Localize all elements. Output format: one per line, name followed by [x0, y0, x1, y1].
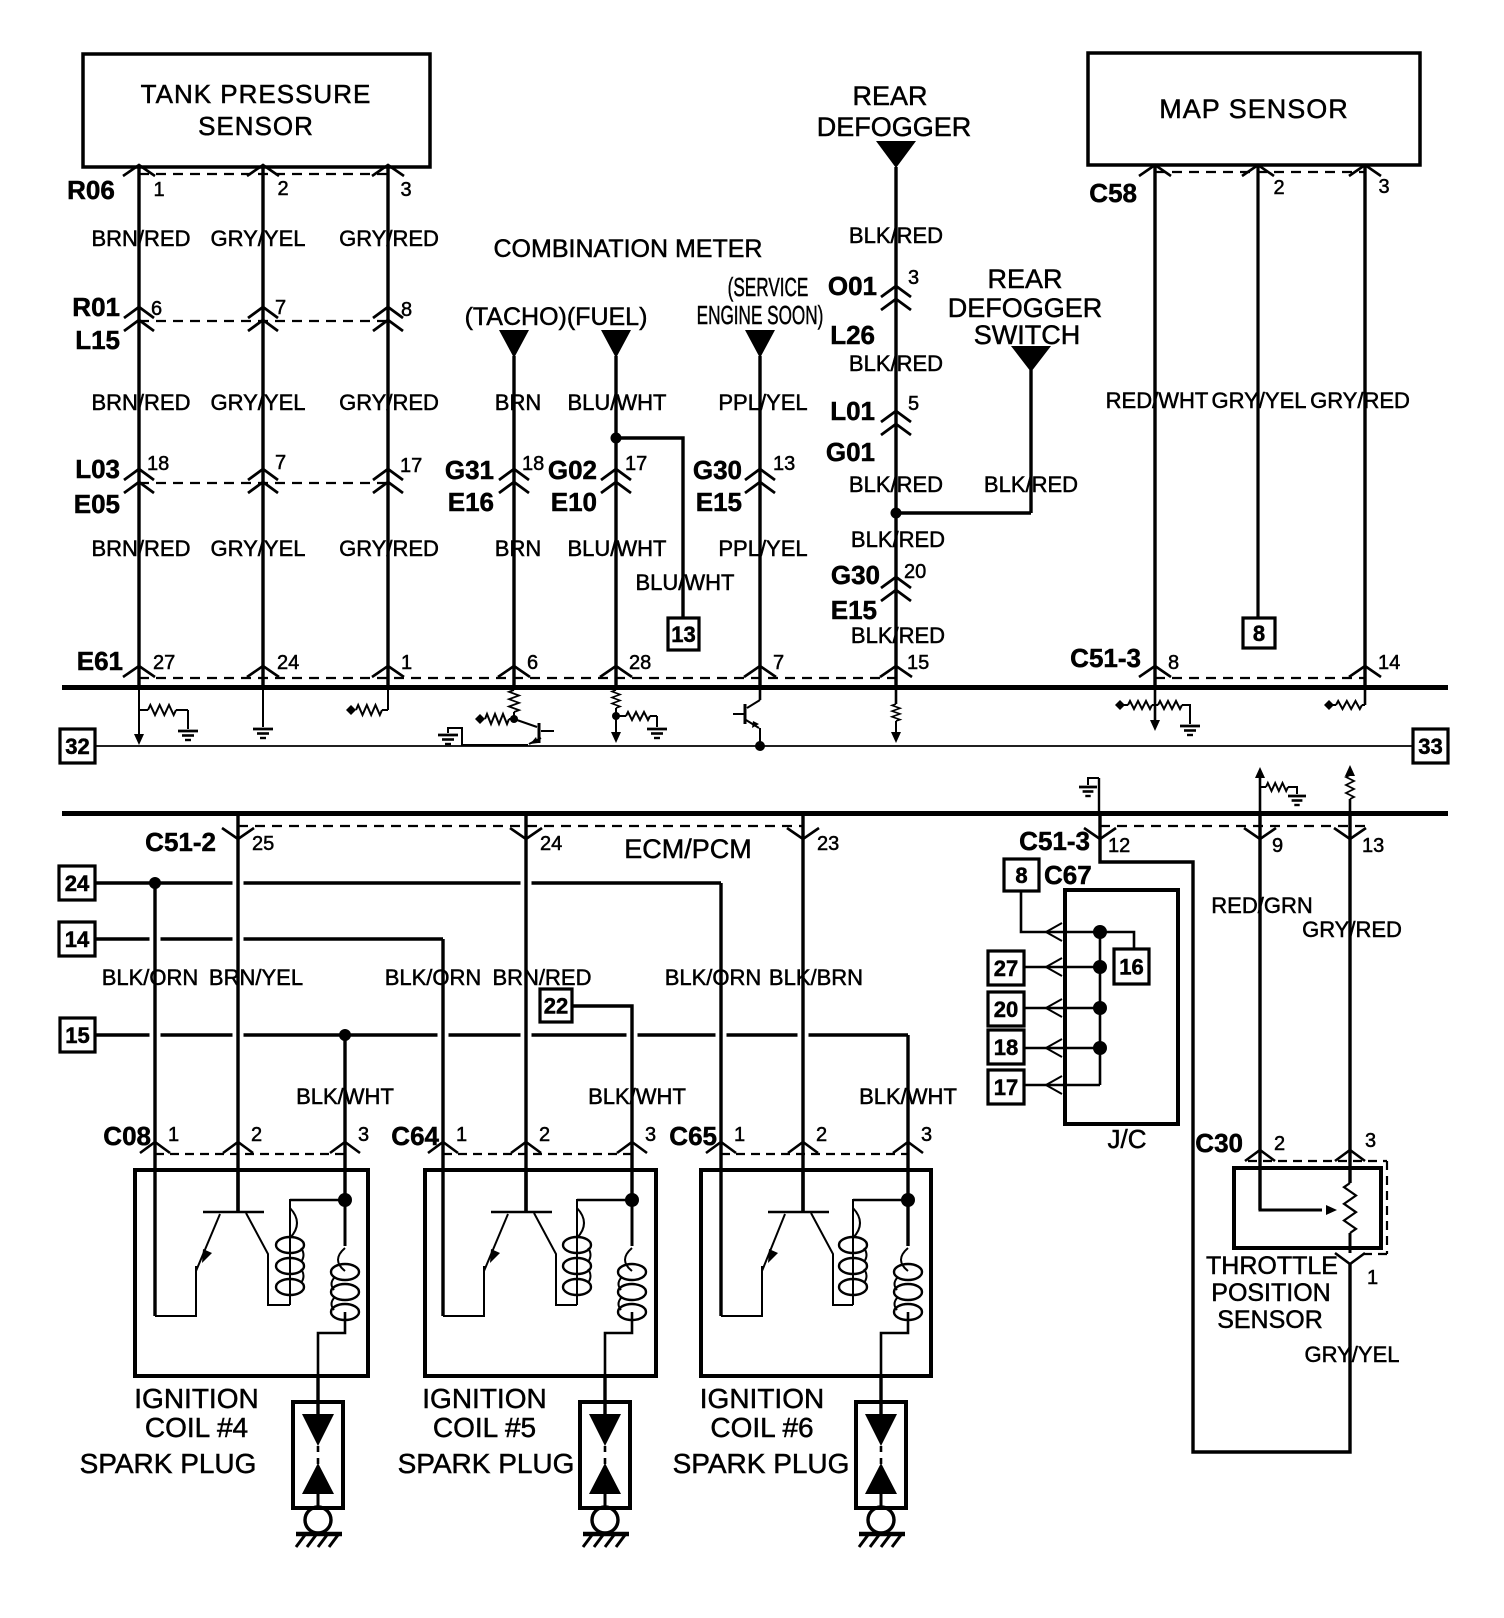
- wire down to C64 pin 1: [441, 939, 444, 1316]
- svg-text:15: 15: [907, 652, 929, 674]
- connector C51-2 pin 24: [510, 828, 542, 839]
- svg-text:16: 16: [1119, 954, 1143, 979]
- svg-text:R01: R01: [72, 292, 120, 322]
- transistor circuit under pin 6: [509, 690, 519, 712]
- connector C65 pin 3: [893, 1142, 923, 1153]
- box 20 jc: [988, 992, 1024, 1026]
- svg-text:SPARK PLUG: SPARK PLUG: [80, 1448, 257, 1479]
- map sensor box: [1088, 53, 1420, 165]
- svg-text:(SERVICE: (SERVICE: [728, 272, 809, 302]
- connector C64 pin 2: [511, 1142, 541, 1153]
- svg-text:24: 24: [65, 871, 90, 896]
- wire C08 pin 3: [343, 1035, 346, 1200]
- svg-text:PPL/YEL: PPL/YEL: [718, 536, 807, 561]
- wire 27 to J/C: [1024, 966, 1100, 969]
- connector E61 pin 15: [880, 666, 912, 677]
- connector E61 pin 6: [498, 666, 530, 677]
- svg-text:14: 14: [1378, 652, 1400, 674]
- connector L03/E05 pin 18: [124, 469, 154, 480]
- svg-text:E15: E15: [696, 487, 742, 517]
- wire GRY/RED lower: [1348, 816, 1351, 1183]
- svg-text:C51-3: C51-3: [1070, 643, 1141, 673]
- svg-text:BLK/BRN: BLK/BRN: [769, 965, 863, 990]
- svg-text:17: 17: [625, 453, 647, 475]
- connector C08 pin 1: [140, 1142, 170, 1153]
- arrow resistor ground above pin 9: [1255, 767, 1265, 778]
- wire PPL/YEL: [758, 356, 761, 685]
- connector C30 pin 1: [1335, 1253, 1365, 1264]
- connector C51-3 dashed line: [1155, 677, 1365, 679]
- svg-text:3: 3: [400, 179, 411, 201]
- wire BLU/WHT fuel: [614, 356, 617, 685]
- svg-text:13: 13: [1362, 835, 1384, 857]
- box 8 C67: [1004, 859, 1039, 891]
- connector C51-3 pin 12: [1084, 828, 1116, 839]
- svg-text:C51-2: C51-2: [145, 827, 216, 857]
- connector L03/E05 pin 17: [373, 469, 403, 480]
- svg-text:RED/WHT: RED/WHT: [1106, 388, 1209, 413]
- spark plug #5 box: [580, 1402, 630, 1508]
- box 32: [60, 729, 95, 763]
- resistor to ground under pin 27: [138, 690, 140, 734]
- tps wiper arrow: [1260, 1168, 1322, 1210]
- spark plug #5 wire: [603, 1376, 606, 1416]
- connector C58 pin 2: [1242, 165, 1274, 176]
- svg-text:DEFOGGER: DEFOGGER: [817, 112, 972, 142]
- bus line 1: [62, 685, 1448, 690]
- svg-text:THROTTLE: THROTTLE: [1206, 1252, 1338, 1280]
- svg-text:BLK/RED: BLK/RED: [851, 623, 945, 648]
- svg-text:GRY/RED: GRY/RED: [339, 226, 439, 251]
- svg-text:14: 14: [65, 927, 90, 952]
- connector E61 dashed line: [139, 677, 896, 679]
- svg-text:6: 6: [151, 298, 162, 320]
- svg-text:BRN: BRN: [495, 390, 541, 415]
- ignition coil #4 transistor: [203, 1211, 264, 1214]
- svg-text:GRY/YEL: GRY/YEL: [211, 536, 306, 561]
- svg-text:E05: E05: [74, 489, 120, 519]
- spark plug #5 chassis ground: [583, 1532, 629, 1537]
- wire BRN/RED seg1: [137, 167, 140, 685]
- connector C08 dashed line: [155, 1153, 345, 1155]
- svg-text:COIL #6: COIL #6: [710, 1412, 813, 1443]
- wire down to C65 pin 1: [719, 883, 722, 1316]
- svg-text:3: 3: [358, 1124, 369, 1146]
- svg-text:8: 8: [1015, 863, 1027, 888]
- svg-text:J/C: J/C: [1108, 1124, 1147, 1154]
- svg-text:IGNITION: IGNITION: [700, 1383, 824, 1414]
- svg-text:ENGINE SOON): ENGINE SOON): [697, 300, 824, 330]
- box 8 map: [1243, 618, 1275, 648]
- spark plug #4 box: [293, 1402, 343, 1508]
- svg-text:TANK PRESSURE: TANK PRESSURE: [141, 79, 372, 109]
- junction dot J/C 3: [1093, 1001, 1107, 1015]
- svg-text:GRY/YEL: GRY/YEL: [1305, 1342, 1400, 1367]
- svg-text:27: 27: [153, 652, 175, 674]
- ignition coil #6 secondary winding: [907, 1200, 910, 1246]
- svg-text:BRN/RED: BRN/RED: [91, 536, 190, 561]
- svg-text:13: 13: [671, 622, 695, 647]
- wire from box 22: [572, 1006, 632, 1200]
- svg-text:PPL/YEL: PPL/YEL: [718, 390, 807, 415]
- svg-text:2: 2: [539, 1124, 550, 1146]
- connector R01/L15 dashed line: [139, 320, 388, 322]
- ground flag above C51-3 pin 12: [1098, 778, 1100, 813]
- svg-text:BLK/RED: BLK/RED: [984, 472, 1078, 497]
- connector C65 pin 2: [788, 1142, 818, 1153]
- spark plug #6 chassis ground: [859, 1532, 905, 1537]
- connector C58 pin 1: [1139, 165, 1171, 176]
- junction dot line 32: [755, 741, 765, 751]
- svg-text:C65: C65: [669, 1121, 717, 1151]
- svg-text:2: 2: [1274, 1133, 1285, 1155]
- spark plug #6 terminal: [868, 1507, 894, 1533]
- J/C box: [1065, 890, 1178, 1124]
- spark plug #6 box: [856, 1402, 906, 1508]
- svg-text:GRY/YEL: GRY/YEL: [211, 390, 306, 415]
- svg-text:O01: O01: [828, 271, 877, 301]
- box 17 jc: [988, 1070, 1024, 1104]
- connector R01/L15 pin 8: [373, 307, 403, 318]
- svg-text:C08: C08: [103, 1121, 151, 1151]
- wire GRY/RED seg1: [386, 167, 389, 685]
- ignition coil #6 junction dot pin 3: [853, 1199, 908, 1202]
- ignition coil #5 junction dot pin 3: [577, 1199, 632, 1202]
- svg-text:1: 1: [168, 1124, 179, 1146]
- connector C65 dashed line: [721, 1153, 908, 1155]
- svg-text:7: 7: [773, 652, 784, 674]
- connector R06 dashed line: [139, 173, 388, 175]
- wire RED/WHT: [1153, 165, 1156, 685]
- connector C65 pin 1: [706, 1142, 736, 1153]
- connector C51-2 pin 25: [222, 828, 254, 839]
- box 27 jc: [988, 951, 1024, 985]
- svg-text:3: 3: [1378, 176, 1389, 198]
- rear defogger switch arrow: [1011, 346, 1051, 372]
- svg-text:32: 32: [65, 734, 89, 759]
- svg-text:1: 1: [153, 179, 164, 201]
- svg-text:E10: E10: [551, 487, 597, 517]
- svg-text:E16: E16: [448, 487, 494, 517]
- box 22: [540, 989, 572, 1022]
- wire to box 16: [1100, 932, 1134, 949]
- connector L03/E05 pin 7: [248, 469, 278, 480]
- wire C08 pin 1: [153, 883, 156, 1316]
- svg-text:BLK/RED: BLK/RED: [851, 527, 945, 552]
- junction dot J/C 1: [1093, 925, 1107, 939]
- svg-text:GRY/RED: GRY/RED: [339, 390, 439, 415]
- ignition coil #5 primary winding: [576, 1199, 578, 1305]
- junction dot J/C 4: [1093, 1041, 1107, 1055]
- svg-text:24: 24: [540, 833, 562, 855]
- wire GRY/YEL seg1: [261, 167, 264, 685]
- spark plug #5 terminal: [592, 1507, 618, 1533]
- svg-text:BLK/ORN: BLK/ORN: [102, 965, 199, 990]
- connector E61 pin 27: [123, 666, 155, 677]
- svg-text:BLK/WHT: BLK/WHT: [296, 1084, 394, 1109]
- svg-text:2: 2: [1273, 177, 1284, 199]
- spark plug #6 wire: [879, 1376, 882, 1416]
- resistors and ground under C51-3 pin 8: [1154, 690, 1157, 721]
- resistor arrow ground under pin 28: [612, 690, 620, 708]
- svg-text:8: 8: [1253, 621, 1265, 646]
- wire from box 15: [95, 1033, 150, 1036]
- svg-text:SPARK PLUG: SPARK PLUG: [673, 1448, 850, 1479]
- connector E61 pin 28: [600, 666, 632, 677]
- svg-text:C51-3: C51-3: [1019, 826, 1090, 856]
- svg-text:L15: L15: [75, 325, 120, 355]
- svg-text:20: 20: [994, 997, 1018, 1022]
- J/C vertical bus: [1099, 932, 1102, 1085]
- svg-text:E15: E15: [831, 595, 877, 625]
- svg-text:POSITION: POSITION: [1211, 1279, 1330, 1307]
- svg-text:BLK/RED: BLK/RED: [849, 472, 943, 497]
- wire 17 to J/C: [1024, 1084, 1100, 1087]
- wire C08 pin 2: [236, 816, 239, 1212]
- svg-text:(TACHO)(FUEL): (TACHO)(FUEL): [465, 303, 648, 331]
- ignition coil #4 box: [135, 1170, 368, 1376]
- svg-text:COIL #4: COIL #4: [145, 1412, 248, 1443]
- svg-text:BLK/ORN: BLK/ORN: [665, 965, 762, 990]
- svg-text:BRN/YEL: BRN/YEL: [209, 965, 303, 990]
- wire box 8 to J/C: [1021, 891, 1100, 932]
- junction dot defogger: [891, 508, 902, 519]
- connector L03/E05 dashed line: [139, 482, 388, 484]
- service engine soon arrow: [745, 330, 775, 358]
- svg-text:IGNITION: IGNITION: [422, 1383, 546, 1414]
- svg-text:3: 3: [908, 267, 919, 289]
- connector C51-2 pin 23: [787, 828, 819, 839]
- svg-text:BLK/WHT: BLK/WHT: [859, 1084, 957, 1109]
- wire C51-3 pin 12 down: [1100, 816, 1350, 1452]
- svg-text:G31: G31: [445, 455, 494, 485]
- J/C chevron 8: [1046, 923, 1062, 941]
- box 15: [60, 1018, 95, 1052]
- wire GRY/RED map: [1363, 165, 1366, 685]
- resistor above pin 13: [1345, 765, 1355, 776]
- svg-text:GRY/RED: GRY/RED: [339, 536, 439, 561]
- svg-text:ECM/PCM: ECM/PCM: [624, 834, 752, 864]
- svg-text:BLK/RED: BLK/RED: [849, 351, 943, 376]
- bus line 2: [62, 811, 1448, 816]
- svg-text:BLU/WHT: BLU/WHT: [568, 536, 667, 561]
- svg-text:BRN: BRN: [495, 536, 541, 561]
- svg-text:33: 33: [1418, 734, 1442, 759]
- wire from box 24: [95, 881, 233, 884]
- ignition coil #6 primary winding: [852, 1199, 854, 1305]
- box 16: [1114, 949, 1149, 984]
- wire from box 14: [95, 937, 150, 940]
- svg-text:C30: C30: [1195, 1128, 1243, 1158]
- wire 20 to J/C: [1024, 1007, 1100, 1010]
- connector C51-3 lower dashed line: [1100, 825, 1366, 827]
- svg-text:L03: L03: [75, 454, 120, 484]
- svg-text:E61: E61: [77, 646, 123, 676]
- svg-text:17: 17: [400, 455, 422, 477]
- wire down to C65 pin 3: [906, 1035, 909, 1246]
- spark plug #5 electrodes: [589, 1414, 621, 1446]
- transistor under pin 7: [759, 690, 762, 700]
- connector C51-3 pin 14: [1349, 666, 1381, 677]
- tps resistor: [1344, 1183, 1356, 1233]
- junction dot J/C 2: [1093, 960, 1107, 974]
- svg-text:SENSOR: SENSOR: [1217, 1306, 1323, 1334]
- svg-text:27: 27: [994, 956, 1018, 981]
- wire BLK/RED defogger: [894, 167, 897, 685]
- svg-text:SWITCH: SWITCH: [974, 320, 1080, 350]
- wire BRN tacho: [512, 356, 515, 685]
- svg-text:12: 12: [1108, 835, 1130, 857]
- svg-text:SPARK PLUG: SPARK PLUG: [398, 1448, 575, 1479]
- connector C08 pin 2: [223, 1142, 253, 1153]
- connector R06 pin 1: [123, 165, 155, 176]
- svg-text:1: 1: [1367, 1267, 1378, 1289]
- svg-text:BRN/RED: BRN/RED: [492, 965, 591, 990]
- connector C58 dashed line: [1155, 171, 1365, 173]
- wire BLK/RED switch: [1029, 370, 1032, 513]
- ignition coil #4 junction dot pin 3: [290, 1199, 345, 1202]
- svg-text:3: 3: [921, 1124, 932, 1146]
- svg-text:REAR: REAR: [987, 264, 1062, 294]
- svg-text:3: 3: [1365, 1130, 1376, 1152]
- svg-text:BRN/RED: BRN/RED: [91, 226, 190, 251]
- rear defogger arrow: [876, 141, 916, 168]
- connector C08 pin 3: [330, 1142, 360, 1153]
- svg-text:GRY/YEL: GRY/YEL: [1212, 388, 1307, 413]
- svg-text:RED/GRN: RED/GRN: [1211, 893, 1312, 918]
- wire GRY/YEL map: [1256, 165, 1259, 618]
- ignition coil #5 transistor: [491, 1211, 552, 1214]
- svg-text:BRN/RED: BRN/RED: [91, 390, 190, 415]
- wire switch to defogger: [896, 511, 1031, 514]
- svg-text:C64: C64: [391, 1121, 439, 1151]
- svg-text:BLK/RED: BLK/RED: [849, 223, 943, 248]
- svg-text:REAR: REAR: [852, 81, 927, 111]
- connector C30 dashed line: [1248, 1160, 1387, 1162]
- svg-text:25: 25: [252, 833, 274, 855]
- ignition coil #6 transistor: [768, 1211, 829, 1214]
- svg-text:BLU/WHT: BLU/WHT: [636, 570, 735, 595]
- ignition coil #5 secondary winding: [631, 1200, 634, 1246]
- svg-text:G01: G01: [826, 437, 875, 467]
- connector C51-2 dashed line: [238, 825, 803, 827]
- svg-text:1: 1: [734, 1124, 745, 1146]
- wire C65 pin 2: [801, 816, 804, 1212]
- wire RED/GRN: [1258, 816, 1261, 1210]
- connector R01/L15 pin 6: [124, 307, 154, 318]
- svg-text:5: 5: [908, 393, 919, 415]
- connector E61 pin 24: [247, 666, 279, 677]
- svg-text:28: 28: [629, 652, 651, 674]
- svg-text:13: 13: [773, 453, 795, 475]
- svg-text:BLK/WHT: BLK/WHT: [588, 1084, 686, 1109]
- connector E61 pin 7: [744, 666, 776, 677]
- svg-text:COMBINATION METER: COMBINATION METER: [494, 235, 763, 263]
- svg-text:L01: L01: [830, 396, 875, 426]
- svg-text:2: 2: [251, 1124, 262, 1146]
- svg-text:1: 1: [456, 1124, 467, 1146]
- svg-text:C58: C58: [1089, 178, 1137, 208]
- svg-text:BLU/WHT: BLU/WHT: [568, 390, 667, 415]
- svg-text:IGNITION: IGNITION: [134, 1383, 258, 1414]
- spark plug #6 electrodes: [865, 1414, 897, 1446]
- svg-text:2: 2: [816, 1124, 827, 1146]
- connector C58 pin 3: [1349, 165, 1381, 176]
- wire 32 to 33: [95, 745, 1413, 747]
- svg-text:7: 7: [275, 297, 286, 319]
- tank pressure sensor box: [83, 54, 430, 167]
- svg-text:1: 1: [401, 652, 412, 674]
- junction dot BLU/WHT: [611, 433, 622, 444]
- svg-text:7: 7: [275, 452, 286, 474]
- box 33: [1413, 729, 1448, 763]
- svg-text:G30: G30: [693, 455, 742, 485]
- connector C51-3 pin 9: [1244, 828, 1276, 839]
- svg-text:DEFOGGER: DEFOGGER: [948, 293, 1103, 323]
- svg-text:22: 22: [544, 993, 568, 1018]
- svg-text:17: 17: [994, 1075, 1018, 1100]
- svg-text:C67: C67: [1044, 860, 1092, 890]
- ground under pin 24: [262, 690, 264, 727]
- ignition coil #4 secondary winding: [344, 1200, 347, 1246]
- box 13: [668, 618, 699, 650]
- spark plug #4 wire: [316, 1376, 319, 1416]
- svg-text:SENSOR: SENSOR: [198, 111, 314, 141]
- connector R06 pin 2: [247, 165, 279, 176]
- box 18 jc: [988, 1030, 1024, 1064]
- svg-text:3: 3: [645, 1124, 656, 1146]
- fuel arrow: [601, 330, 631, 358]
- connector C64 pin 3: [617, 1142, 647, 1153]
- connector E61 pin 1: [372, 666, 404, 677]
- ignition coil #6 box: [701, 1170, 931, 1376]
- svg-text:15: 15: [65, 1023, 89, 1048]
- connector R06 pin 3: [372, 165, 404, 176]
- resistor arrow under pin 15: [895, 690, 898, 704]
- svg-text:GRY/RED: GRY/RED: [1310, 388, 1410, 413]
- svg-text:18: 18: [522, 453, 544, 475]
- spark plug #4 chassis ground: [296, 1532, 342, 1537]
- connector R01/L15 pin 7: [248, 307, 278, 318]
- ignition coil #5 box: [425, 1170, 656, 1376]
- svg-text:COIL #5: COIL #5: [433, 1412, 536, 1443]
- spark plug #4 electrodes: [302, 1414, 334, 1446]
- connector C64 dashed line: [443, 1153, 632, 1155]
- svg-text:24: 24: [277, 652, 299, 674]
- svg-text:18: 18: [147, 453, 169, 475]
- ignition coil #4 primary winding: [289, 1199, 291, 1305]
- svg-text:R06: R06: [67, 175, 115, 205]
- svg-text:GRY/YEL: GRY/YEL: [211, 226, 306, 251]
- svg-text:2: 2: [277, 178, 288, 200]
- svg-text:8: 8: [1168, 652, 1179, 674]
- svg-text:MAP SENSOR: MAP SENSOR: [1159, 94, 1349, 124]
- box 24: [59, 866, 95, 900]
- connector C30 pin 3: [1335, 1150, 1365, 1161]
- svg-text:BLK/ORN: BLK/ORN: [385, 965, 482, 990]
- wire 18 to J/C: [1024, 1047, 1100, 1050]
- wire C64 pin 2: [524, 816, 527, 1212]
- connector C64 pin 1: [428, 1142, 458, 1153]
- box 14: [59, 922, 95, 956]
- connector C30 pin 2: [1245, 1150, 1275, 1161]
- svg-text:23: 23: [817, 833, 839, 855]
- resistor under C51-3 pin 14: [1364, 690, 1367, 705]
- resistor under pin 1: [387, 690, 389, 710]
- spark plug #4 terminal: [305, 1507, 331, 1533]
- svg-text:L26: L26: [830, 320, 875, 350]
- svg-text:6: 6: [527, 652, 538, 674]
